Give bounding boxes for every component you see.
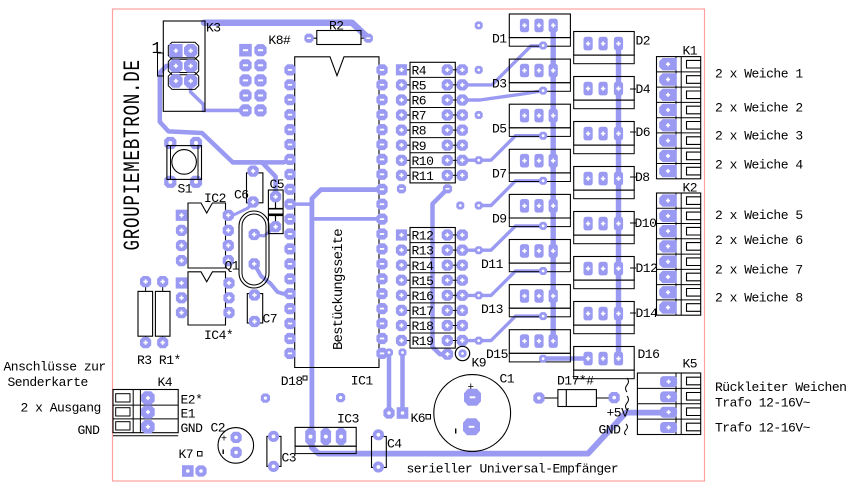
wire R16 to D11 [462, 271, 543, 295]
diodes D2-D16 right column [574, 32, 635, 379]
wire via to D7 [479, 181, 543, 206]
svg-text:R16: R16 [412, 289, 434, 304]
svg-text:R9: R9 [412, 139, 427, 154]
svg-text:GND: GND [599, 423, 622, 438]
svg-text:Trafo 12-16V~: Trafo 12-16V~ [715, 396, 811, 411]
diode D11 box [509, 240, 570, 276]
svg-text:K8#: K8# [268, 33, 291, 48]
wire C5 to Q1 [254, 227, 276, 236]
hole K9 [455, 346, 469, 360]
terminal K1 [657, 57, 701, 179]
via center [336, 393, 345, 402]
svg-text:D4: D4 [636, 82, 651, 97]
diode D6 box [574, 122, 635, 154]
wire C6 to IC2 [228, 202, 253, 215]
diode D7 box [509, 149, 570, 185]
vertical text GROUPIEMEBTRON.DE [121, 59, 147, 250]
wire K3 to R2 top [204, 23, 368, 38]
svg-text:R8: R8 [412, 124, 427, 139]
diodes D1-D15 left column [509, 14, 570, 363]
regulator IC3 [295, 427, 356, 453]
svg-text:Trafo 12-16V~: Trafo 12-16V~ [715, 421, 811, 436]
connector K6 [383, 407, 408, 419]
wire R19 to D13 [462, 316, 543, 341]
svg-text:Rückleiter Weichen: Rückleiter Weichen [715, 380, 846, 395]
svg-text:2 x Weiche 7: 2 x Weiche 7 [715, 263, 803, 278]
svg-text:R15: R15 [412, 274, 434, 289]
svg-text:2 x Weiche 8: 2 x Weiche 8 [715, 291, 803, 306]
wire IC3 to K5 +5V [312, 413, 669, 454]
resistor R12 [396, 229, 468, 244]
svg-text:D13: D13 [481, 302, 503, 317]
capacitor C7 [247, 289, 262, 327]
title text [407, 462, 619, 477]
svg-text:D7: D7 [492, 167, 507, 182]
wire IC1 pin to 5V rail [312, 190, 382, 437]
svg-text:D9: D9 [492, 212, 507, 227]
svg-text:2 x Weiche 2: 2 x Weiche 2 [715, 101, 803, 116]
svg-text:R10: R10 [412, 154, 434, 169]
svg-text:GND: GND [78, 423, 101, 438]
left outside labels [4, 360, 106, 439]
connector K7 [182, 465, 207, 477]
wire branch to IC1 pin [233, 159, 290, 162]
wire K3 pin3 to C5 [160, 66, 276, 197]
resistor R6 [396, 94, 468, 109]
right outside labels [715, 67, 846, 436]
svg-text:C1: C1 [500, 372, 515, 387]
svg-text:D5: D5 [492, 122, 507, 137]
diode D17 [533, 390, 620, 407]
wire D2 column vertical bus [616, 44, 621, 359]
svg-text:2 x Weiche 6: 2 x Weiche 6 [715, 233, 803, 248]
svg-text:E2*: E2* [181, 393, 203, 408]
svg-text:S1: S1 [178, 182, 193, 197]
svg-text:K9: K9 [472, 356, 487, 371]
IC U4 (IC4) [176, 272, 235, 325]
terminal K2 [657, 193, 701, 315]
text plus suffix marks [198, 376, 629, 456]
svg-text:GND: GND [181, 421, 204, 436]
svg-text:R3 R1*: R3 R1* [137, 353, 181, 368]
diode D5 box [509, 104, 570, 140]
resistor R9 [396, 139, 468, 154]
wire K3 pin6 to K8 row5 [191, 81, 246, 110]
via column pads [385, 21, 483, 359]
svg-text:2 x Weiche 1: 2 x Weiche 1 [715, 67, 803, 82]
capacitor C4 [372, 429, 387, 472]
svg-text:IC1: IC1 [351, 374, 374, 389]
svg-text:D17*#: D17*# [557, 374, 594, 389]
svg-text:2 x Ausgang: 2 x Ausgang [21, 401, 101, 416]
resistor R14 [396, 259, 468, 274]
board outline (pink frame) [113, 9, 705, 481]
resistor R2 [304, 31, 373, 45]
wire R10 to D5 [462, 136, 543, 161]
svg-text:D15: D15 [486, 347, 508, 362]
svg-text:IC4*: IC4* [204, 328, 233, 343]
svg-text:R7: R7 [412, 109, 427, 124]
svg-text:K3: K3 [206, 21, 221, 36]
wire via to K6 pin1 [387, 353, 392, 414]
wire IC1 pin branch [291, 202, 312, 206]
svg-text:R2: R2 [329, 19, 344, 34]
svg-text:C7: C7 [263, 312, 278, 327]
svg-text:C4: C4 [387, 437, 402, 452]
vertical text Bestueckungsseite [331, 229, 347, 350]
resistor R16 [396, 289, 468, 304]
diode D12 box [574, 257, 635, 289]
diode D13 box [509, 285, 570, 321]
svg-text:C5: C5 [270, 177, 285, 192]
capacitor C6 [247, 166, 263, 208]
diode D8 box [574, 167, 635, 199]
wire D1 column vertical bus [551, 25, 556, 341]
capacitor C3 [267, 431, 281, 472]
svg-text:D11: D11 [481, 257, 504, 272]
svg-text:R18: R18 [412, 319, 434, 334]
diode D15 box [509, 330, 570, 363]
svg-text:R6: R6 [412, 94, 427, 109]
via D18 [261, 394, 270, 403]
svg-text:K5: K5 [683, 357, 698, 372]
svg-text:GROUPIEMEBTRON.DE: GROUPIEMEBTRON.DE [121, 59, 147, 250]
resistor R3 [138, 276, 153, 348]
connector K8 [239, 44, 266, 117]
diode D1 box [509, 14, 570, 50]
texts [630, 89, 636, 313]
resistor R1 [155, 276, 170, 348]
resistor R11 [396, 169, 468, 184]
svg-text:D3: D3 [492, 76, 507, 91]
svg-text:R11: R11 [412, 169, 435, 184]
wire via to K6 pin2 [400, 353, 405, 414]
svg-text:Senderkarte: Senderkarte [8, 375, 88, 390]
IC1 pads right [376, 64, 387, 359]
svg-text:K4: K4 [158, 375, 173, 390]
svg-text:serieller Universal-Empfänger: serieller Universal-Empfänger [407, 462, 619, 477]
terminal K5 [637, 373, 700, 435]
svg-text:1: 1 [152, 40, 162, 59]
svg-text:D10: D10 [635, 216, 657, 231]
svg-text:K1: K1 [683, 44, 698, 59]
svg-text:R13: R13 [412, 244, 434, 259]
svg-text:R5: R5 [412, 79, 427, 94]
svg-text:R19: R19 [412, 334, 434, 349]
svg-text:Anschlüsse zur: Anschlüsse zur [4, 360, 106, 375]
svg-text:K6: K6 [411, 411, 426, 426]
resistor R19 [396, 334, 468, 349]
svg-text:R14: R14 [412, 259, 435, 274]
svg-text:D2: D2 [636, 34, 651, 49]
capacitor C1 [434, 375, 511, 452]
svg-text:IC2: IC2 [204, 191, 226, 206]
resistor R4 [396, 63, 468, 78]
svg-text:C3: C3 [282, 451, 297, 466]
svg-text:IC3: IC3 [337, 412, 359, 427]
svg-text:C6: C6 [234, 188, 249, 203]
svg-text:2 x Weiche 5: 2 x Weiche 5 [715, 208, 803, 223]
wire fan D diodes to vias [462, 136, 543, 341]
diode D16 box [574, 347, 635, 379]
resistor R18 [396, 319, 468, 334]
wire R5 to D1 [462, 46, 543, 85]
IC U1 (IC1) [295, 57, 379, 368]
diode D10 box [574, 212, 635, 244]
svg-text:D6: D6 [636, 125, 651, 140]
svg-text:Q1: Q1 [225, 259, 240, 274]
terminal K4 [113, 390, 178, 436]
svg-text:C2: C2 [211, 421, 226, 436]
diode D3 box [509, 59, 570, 95]
wire via to R19 [433, 189, 448, 354]
diode D4 box [574, 77, 635, 109]
resistor network R4-R11 [396, 62, 468, 184]
svg-text:Bestückungsseite: Bestückungsseite [331, 229, 347, 350]
svg-text:R12: R12 [412, 229, 434, 244]
svg-text:D16: D16 [638, 347, 660, 362]
svg-text:+: + [468, 382, 475, 394]
svg-text:E1: E1 [181, 407, 196, 422]
svg-text:D8: D8 [635, 170, 650, 185]
svg-text:K2: K2 [683, 181, 698, 196]
svg-text:+: + [221, 435, 227, 446]
connector K3 [158, 21, 206, 111]
switch S1 [164, 137, 202, 188]
crystal Q1 [239, 211, 269, 288]
IC U2 (IC2) [176, 203, 234, 268]
svg-text:D14: D14 [636, 306, 659, 321]
resistor R5 [396, 79, 468, 94]
resistor R7 [396, 109, 468, 124]
capacitor C5 [268, 190, 283, 234]
wire R6 to D3 [462, 91, 543, 100]
IC1 pads left [284, 64, 295, 359]
resistor R13 [396, 244, 468, 259]
resistor R15 [396, 274, 468, 289]
resistor R17 [396, 304, 468, 319]
svg-text:R17: R17 [412, 304, 434, 319]
wire R13 to D9 [462, 226, 543, 250]
svg-text:D1: D1 [492, 31, 507, 46]
svg-text:R4: R4 [412, 63, 427, 78]
svg-text:D18: D18 [281, 374, 303, 389]
resistor network R12-R19 [396, 228, 468, 350]
diode D9 box [509, 194, 570, 230]
diode D14 box [574, 302, 635, 334]
capacitor C2 [218, 428, 254, 464]
svg-text:2 x Weiche 4: 2 x Weiche 4 [715, 158, 803, 173]
svg-text:K7: K7 [179, 447, 194, 462]
wire D15 to D16 [543, 356, 588, 361]
resistor R10 [396, 154, 468, 169]
diode D2 box [574, 32, 635, 64]
wire IC1 pin branch 2 [312, 217, 382, 221]
resistor R8 [396, 124, 468, 139]
svg-text:D12: D12 [636, 261, 658, 276]
wire Q1 to IC1 [254, 264, 290, 294]
svg-text:2 x Weiche 3: 2 x Weiche 3 [715, 129, 803, 144]
